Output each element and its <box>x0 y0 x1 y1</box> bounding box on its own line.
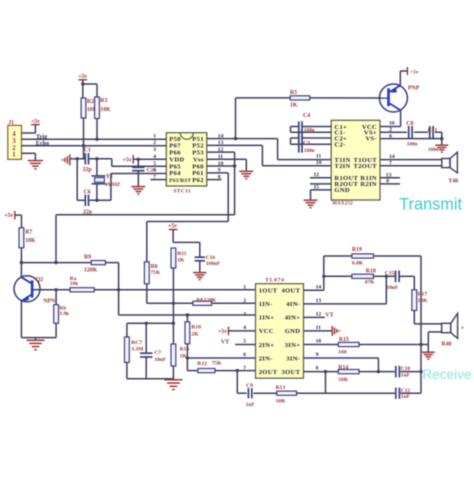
label r <box>462 326 465 331</box>
wire R2IN stub <box>380 183 400 185</box>
resistor R13 <box>277 391 297 395</box>
wire R3 bottom to Trig <box>96 119 98 140</box>
svg-text:3.9k: 3.9k <box>59 311 69 317</box>
wire Q2 base line <box>33 289 70 291</box>
pin number 15 GND <box>314 184 320 190</box>
svg-text:3IN+: 3IN+ <box>285 342 301 349</box>
node R3-Trig junction <box>95 138 98 141</box>
pin number 11 T1IN <box>316 154 321 160</box>
wire R12 line <box>187 370 198 372</box>
wire U3 pin6 line <box>187 357 255 359</box>
ground at MAX232 GND <box>304 200 318 208</box>
svg-text:C7: C7 <box>154 350 161 356</box>
transistor Q1 PNP <box>379 84 407 112</box>
label C6 22p <box>83 190 92 216</box>
node net-collector junction <box>54 261 57 264</box>
pin numbers U3 left <box>243 284 246 371</box>
label R3 10K <box>100 98 111 113</box>
wire R11 bottom column <box>172 268 174 344</box>
node R18 tap junction <box>322 275 325 278</box>
svg-text:GND: GND <box>285 328 301 335</box>
wire Trig net J1 pin3 to U1 pin1 <box>22 138 167 140</box>
wire to R19 <box>324 255 352 257</box>
pin number 12 R1OUT <box>314 172 320 178</box>
power +5v at U3 VCC <box>218 327 229 336</box>
ground at J1 <box>28 161 43 169</box>
wire R6 bottom to R8 line <box>147 284 193 304</box>
svg-text:2IN+: 2IN+ <box>259 342 275 349</box>
svg-text:1nF: 1nF <box>401 372 411 378</box>
node bus1 left junction <box>76 157 79 160</box>
wire crystal top stem <box>96 159 98 176</box>
node pin7-C9 junction <box>236 369 239 372</box>
svg-text:Q2: Q2 <box>36 277 44 283</box>
svg-text:75K: 75K <box>212 360 223 366</box>
svg-text:10: 10 <box>316 339 322 345</box>
svg-text:STC11: STC11 <box>173 189 191 195</box>
svg-text:R40: R40 <box>441 341 451 347</box>
label R17 10K <box>418 292 429 304</box>
svg-text:13: 13 <box>316 298 322 304</box>
wire U3 pin11 GND stub <box>304 330 332 332</box>
wire VS+ through C8 C11 <box>380 132 442 138</box>
wire bus2 to U1 pin6 <box>111 174 166 201</box>
node pin13 junction <box>385 275 388 278</box>
svg-text:C1: C1 <box>84 148 91 154</box>
resistor R15 <box>338 342 359 346</box>
capacitor C12 <box>396 388 400 399</box>
wire net pin12 to amplifier <box>56 215 235 263</box>
power +5v at J1 <box>31 119 40 125</box>
label R10 2K <box>191 325 201 338</box>
label R15 160 <box>338 337 349 355</box>
power +5v above R2 R3 <box>78 74 87 84</box>
svg-text:15: 15 <box>314 184 320 190</box>
label C10 1nF <box>401 366 411 378</box>
wire R5 vertical to U1 pin14 <box>235 98 237 139</box>
wire R18 to C15 <box>373 275 395 277</box>
wire U3 pin13 up <box>304 276 387 304</box>
resistor R2 <box>81 98 86 118</box>
svg-text:PNP: PNP <box>408 86 420 92</box>
label R11 1K <box>177 251 187 264</box>
svg-text:1nF: 1nF <box>246 402 256 408</box>
wire bus2 crystal bottom <box>77 199 111 201</box>
svg-text:2: 2 <box>153 140 156 146</box>
svg-text:R13: R13 <box>276 385 286 391</box>
svg-text:14: 14 <box>389 154 395 160</box>
svg-text:12: 12 <box>316 311 322 317</box>
label C12 1nF <box>401 388 411 400</box>
svg-text:+5v: +5v <box>218 329 227 335</box>
wire U3 pin10 to R15 <box>304 344 339 346</box>
node R10-pin6 junction <box>186 356 189 359</box>
wire VS- to ground <box>380 138 442 140</box>
svg-text:C4: C4 <box>303 113 310 119</box>
label Echo <box>36 140 49 147</box>
label MAX232 <box>332 202 353 207</box>
wire collector node to R9 <box>21 262 91 264</box>
resistor R3 <box>95 97 100 119</box>
ground left of C1 <box>62 154 73 165</box>
resistor R6 <box>144 262 149 284</box>
svg-text:4: 4 <box>243 325 246 331</box>
label PNP <box>408 86 420 92</box>
wire C15 to R17 <box>400 276 415 290</box>
wire R12 to U3 pin7 <box>215 370 256 372</box>
label R2 10K <box>87 99 98 113</box>
svg-text:5: 5 <box>153 161 156 167</box>
label R13 10K <box>276 385 287 404</box>
label T40 <box>449 179 459 185</box>
svg-text:C6: C6 <box>84 190 91 196</box>
svg-text:11: 11 <box>316 325 321 331</box>
capacitor C7 <box>140 353 152 357</box>
wire C4 loop <box>291 127 332 133</box>
svg-text:MAX232: MAX232 <box>332 202 353 207</box>
svg-text:8: 8 <box>316 366 319 372</box>
svg-text:C3: C3 <box>303 141 310 147</box>
node pin9-R14 junction <box>377 370 380 373</box>
svg-text:VCC: VCC <box>259 328 274 335</box>
wire R19 to right rail <box>373 256 421 393</box>
wire R13 to C12 <box>297 392 395 394</box>
wire U1 pin11 Vss to ground <box>207 159 247 171</box>
svg-text:P66: P66 <box>169 149 181 156</box>
svg-text:2IN-: 2IN- <box>259 355 273 362</box>
svg-text:5: 5 <box>243 339 246 345</box>
node R13 tap junction <box>324 370 327 373</box>
node VDD-C26 junction <box>137 158 140 161</box>
node rail-R15 junction <box>419 343 422 346</box>
wire U1 pin14 to MAX232 T1IN <box>207 139 331 160</box>
wire bus1 crystal top <box>73 158 112 160</box>
wire +5v to R2 and R3 tops <box>83 84 97 98</box>
IC U3 TL074 <box>256 284 304 379</box>
pin numbers U1 left <box>153 133 156 180</box>
svg-text:10K: 10K <box>418 298 429 304</box>
wire R17 to R40 <box>414 311 441 324</box>
svg-text:1K: 1K <box>290 102 298 108</box>
svg-text:VT: VT <box>221 340 229 346</box>
svg-text:TL074: TL074 <box>265 277 284 283</box>
svg-text:2: 2 <box>243 298 246 304</box>
label VT at pin5 <box>221 340 229 346</box>
svg-text:VS-: VS- <box>365 135 377 142</box>
svg-text:100n: 100n <box>304 128 315 134</box>
resistor R16 <box>171 344 176 366</box>
wire U3 pin8 to R14 <box>304 371 339 373</box>
svg-text:8: 8 <box>386 178 389 184</box>
resistor R9 <box>91 261 105 265</box>
label R40 <box>441 341 451 347</box>
svg-text:10nF: 10nF <box>387 285 399 291</box>
wire U1 pin9 down <box>207 173 228 222</box>
pin number 16 VCC <box>389 120 395 126</box>
wire U1 pin12 down <box>207 152 235 215</box>
ground center <box>164 380 182 390</box>
svg-text:9: 9 <box>316 352 319 358</box>
pin number 13 R1IN <box>386 172 392 178</box>
svg-text:R8: R8 <box>196 298 203 304</box>
svg-text:R15: R15 <box>339 337 349 343</box>
resistor R17 <box>412 290 417 311</box>
wire R13 branch up to pin8 line <box>325 372 327 394</box>
label R5 1K <box>290 90 298 108</box>
wire J1 pin4 to +5v <box>22 125 36 133</box>
svg-text:1: 1 <box>153 133 156 139</box>
wire C9 to R13 <box>254 392 277 394</box>
wire J1 pin1 to ground <box>22 153 36 160</box>
wire U3 pin9 down <box>304 358 379 372</box>
resistor R11 <box>171 248 176 268</box>
power +5v left edge <box>4 211 15 220</box>
wire to R5 <box>236 97 291 99</box>
svg-text:NPN: NPN <box>43 299 56 305</box>
node crystal top junction <box>95 157 98 160</box>
label R16 1K <box>180 347 190 360</box>
svg-text:Transmit: Transmit <box>399 196 462 214</box>
svg-text:R2IN: R2IN <box>360 181 377 188</box>
wire crystal bottom stem <box>96 184 98 201</box>
capacitor C6 <box>85 195 88 206</box>
svg-text:R7: R7 <box>25 230 32 236</box>
wire RC7 C7 top bus <box>127 323 173 337</box>
wire R2OUT stub <box>310 183 331 185</box>
svg-text:C8: C8 <box>406 121 413 127</box>
wire Q1 collector to MAX232 VCC <box>380 110 401 126</box>
svg-text:2K: 2K <box>191 331 199 337</box>
svg-text:3IN-: 3IN- <box>286 355 300 362</box>
svg-text:10k: 10k <box>70 281 78 287</box>
wire C9 R13 line <box>237 371 246 394</box>
ground right at U3 GND <box>332 326 339 336</box>
svg-text:4MHZ: 4MHZ <box>105 182 121 188</box>
label C15 10nF <box>385 270 399 290</box>
svg-text:R3: R3 <box>100 98 107 104</box>
pin number 2 VS+ <box>389 127 392 133</box>
svg-text:3.3M: 3.3M <box>131 347 144 353</box>
svg-text:10: 10 <box>316 160 322 166</box>
label Transmit <box>399 196 462 214</box>
wire R16 bottom to ground <box>172 366 174 380</box>
svg-text:1IN-: 1IN- <box>259 301 273 308</box>
svg-text:160: 160 <box>338 349 347 355</box>
svg-text:1OUT: 1OUT <box>259 288 278 295</box>
wire R8 to U3 pin2 <box>212 302 256 304</box>
node R11-pin2 junction <box>172 302 175 305</box>
wire R2 bottom to Echo and C1 bus <box>83 118 85 159</box>
capacitor C11 <box>430 126 433 138</box>
label C26 <box>147 168 157 174</box>
IC U2 MAX232 <box>331 120 380 200</box>
wire Q2 emitter down <box>20 301 22 338</box>
node pin10 junction <box>233 164 236 167</box>
svg-text:+5v: +5v <box>78 74 87 80</box>
svg-text:7: 7 <box>243 366 246 372</box>
svg-text:R14: R14 <box>338 365 348 371</box>
svg-text:7: 7 <box>389 160 392 166</box>
IC U1 STC11 <box>166 133 207 186</box>
svg-text:47K: 47K <box>365 279 376 285</box>
connector J1 <box>8 120 22 159</box>
svg-text:P64: P64 <box>169 170 181 177</box>
svg-text:P53: P53 <box>192 149 204 156</box>
node VS- junction <box>440 137 443 140</box>
svg-text:Y1: Y1 <box>106 174 113 180</box>
svg-text:VT: VT <box>325 312 333 318</box>
label C1 22p <box>83 148 92 174</box>
svg-text:12: 12 <box>314 172 320 178</box>
wire +5v stem to junction <box>172 230 174 243</box>
wire R10 bottom column <box>186 344 188 371</box>
svg-text:P62: P62 <box>192 177 204 184</box>
ground at R40 <box>422 352 435 359</box>
node R2-Echo junction <box>82 144 85 147</box>
wire MAX232 GND to ground <box>311 190 332 200</box>
wire R40 bottom to ground <box>428 332 441 352</box>
svg-text:10nF: 10nF <box>154 357 166 363</box>
svg-text:C11: C11 <box>428 128 438 134</box>
wire C26 top stem <box>137 159 139 167</box>
wire bus1 to U1 pin5 <box>112 159 167 166</box>
wire Echo net J1 pin2 to U1 pin2 <box>22 145 167 147</box>
pin number 10 T2IN <box>316 160 322 166</box>
svg-text:Receive: Receive <box>422 367 471 382</box>
wire net pin9 to R6 <box>147 222 228 262</box>
svg-text:100n: 100n <box>407 142 418 148</box>
wire U1 pin10 join <box>207 165 235 167</box>
svg-text:100n: 100n <box>428 147 439 153</box>
svg-text:75K: 75K <box>151 270 161 276</box>
svg-text:13: 13 <box>386 172 392 178</box>
capacitor C4 <box>299 121 302 137</box>
wire emitter bus <box>21 338 56 340</box>
svg-text:+5v: +5v <box>410 70 419 76</box>
pin numbers U3 right <box>316 284 322 371</box>
resistor R8 <box>193 301 212 305</box>
label R12 75K <box>197 360 222 367</box>
svg-text:P63/RST: P63/RST <box>169 178 191 184</box>
resistor RC7 <box>125 337 130 362</box>
node +5v junction <box>81 82 84 85</box>
wire R9 to 1OUT vertical <box>105 263 118 315</box>
pin number 8 R2IN <box>386 178 389 184</box>
wire Rb stems <box>55 290 57 338</box>
wire R1OUT stub <box>310 177 331 179</box>
svg-text:4IN-: 4IN- <box>286 301 300 308</box>
ground at C11 <box>435 145 448 152</box>
svg-text:RC7: RC7 <box>131 340 142 346</box>
svg-text:1IN+: 1IN+ <box>259 315 275 322</box>
capacitor C26 <box>132 167 144 170</box>
wire R15 to ground rail <box>359 344 428 346</box>
svg-text:C9: C9 <box>246 383 253 389</box>
capacitor C15 <box>396 271 400 283</box>
svg-text:+5v: +5v <box>123 157 132 163</box>
svg-text:3: 3 <box>243 311 246 317</box>
node C7 top junction <box>145 322 148 325</box>
resistor R18 <box>352 274 374 278</box>
label R19 6.8K <box>352 247 364 266</box>
svg-text:GND: GND <box>334 187 350 194</box>
wire U1 pin7 stub <box>151 179 167 181</box>
label R14 56K <box>338 365 349 383</box>
label Q2 <box>36 277 44 283</box>
label C3 100n <box>303 141 315 154</box>
svg-text:14: 14 <box>316 284 322 290</box>
svg-text:4OUT: 4OUT <box>282 288 301 295</box>
svg-text:R18: R18 <box>366 269 376 275</box>
node column-bus junction <box>172 322 175 325</box>
capacitor C9 <box>248 388 251 398</box>
label Ra 10k <box>70 276 78 287</box>
node R5-pin14 junction <box>234 137 237 140</box>
svg-text:1K: 1K <box>177 257 185 263</box>
svg-text:10K: 10K <box>25 238 36 244</box>
svg-text:+5v: +5v <box>4 213 13 219</box>
svg-text:T40: T40 <box>449 179 459 185</box>
svg-text:6: 6 <box>153 168 156 174</box>
transducer T40 <box>442 152 458 173</box>
resistor Ra <box>70 288 94 292</box>
capacitor C8 <box>409 126 412 138</box>
wire C7 bottom stem <box>145 357 147 379</box>
wire +5v to U1 pin4 <box>133 158 166 160</box>
svg-text:1nF: 1nF <box>401 394 411 400</box>
wire down to ground <box>441 139 443 145</box>
label C7 10nF <box>154 350 166 363</box>
capacitor C1 <box>85 153 88 164</box>
svg-text:R10: R10 <box>191 325 201 331</box>
label Y1 4MHZ <box>105 174 121 188</box>
capacitor C10 <box>396 366 400 378</box>
wire to R18 <box>324 275 352 277</box>
wire T2OUT to T40 <box>380 165 442 167</box>
label TL074 <box>265 277 284 283</box>
svg-text:6.8K: 6.8K <box>352 261 364 267</box>
wire C12 to rail <box>400 392 421 394</box>
svg-text:C2-: C2- <box>334 142 345 149</box>
ground at C16 <box>193 273 206 280</box>
svg-text:4IN+: 4IN+ <box>285 315 301 322</box>
wire C7 top stem <box>145 323 147 353</box>
capacitor C3 <box>299 137 302 153</box>
wire U1 pin13 to MAX232 T2IN <box>207 145 331 165</box>
node rail-C10 junction <box>419 370 422 373</box>
label Rb 3.9k <box>59 306 69 318</box>
svg-text:11: 11 <box>316 154 321 160</box>
node base-Rb junction <box>54 288 57 291</box>
label R7 10K <box>25 230 36 245</box>
wire +5v to U3 pin4 <box>229 330 256 332</box>
svg-text:16: 16 <box>389 120 395 126</box>
wire T1OUT to T40 <box>380 159 442 161</box>
node crystal bottom junction <box>95 199 98 202</box>
label R8 120K <box>196 298 217 304</box>
ground at U1 Vss <box>239 171 253 179</box>
resistor R5 <box>290 96 310 100</box>
svg-text:22p: 22p <box>83 167 92 173</box>
capacitor C16 <box>195 257 205 261</box>
wire U3 pin3 line <box>119 314 256 316</box>
label C4 100n <box>303 113 315 134</box>
svg-text:100nF: 100nF <box>206 261 221 267</box>
svg-text:3OUT: 3OUT <box>282 369 301 376</box>
label C8 100n <box>406 121 417 148</box>
node 1OUT junction <box>117 288 120 291</box>
svg-text:10K: 10K <box>100 107 111 113</box>
